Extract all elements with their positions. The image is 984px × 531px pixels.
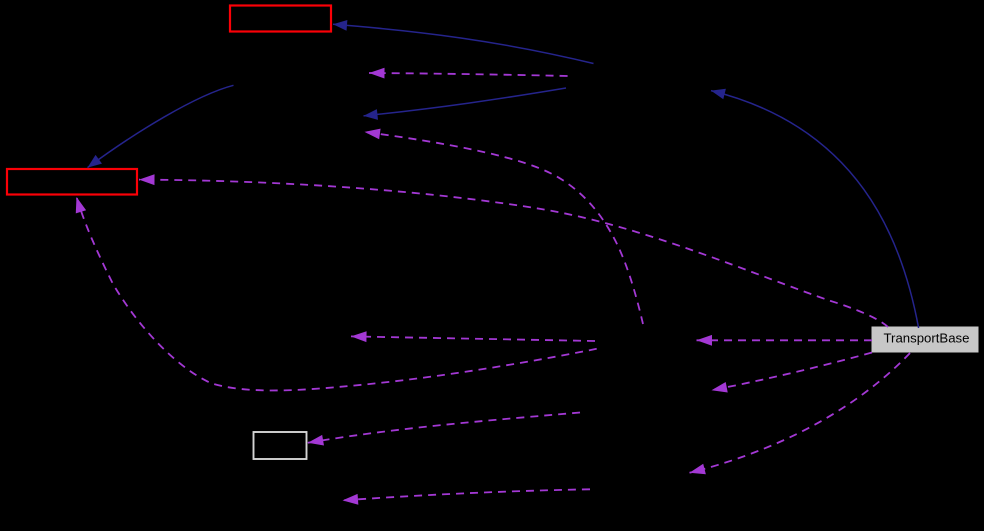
svg-text:TransportBase: TransportBase: [883, 331, 969, 346]
edge P6: dashed usage arrow, center node to top-left hidden node: [369, 73, 568, 76]
node: red class box (top, truncated label): [230, 6, 331, 32]
edge B4: solid inheritance arrow, TransportBase up to center node: [711, 91, 919, 328]
edge P9: dashed usage arrow, hidden node to white box: [308, 413, 580, 443]
edge P7: dashed usage arrow, mid node to left (horizontal): [351, 336, 595, 341]
edge P2: dashed usage arrow, TransportBase to mid hidden node (horizontal): [697, 339, 873, 341]
edge B1: solid inheritance arrow, center node to top red box: [333, 24, 594, 63]
edge P5: dashed usage arrow, S-curve from mid node up-left: [365, 132, 644, 324]
edge P11: dashed usage arrow, TransportBase to lower hidden node: [712, 353, 873, 391]
edge P1: dashed usage arrow, TransportBase to left red box: [139, 180, 888, 327]
node: TransportBase (grey filled): [872, 327, 978, 352]
edge P12: dashed usage arrow, TransportBase to bottom hidden node: [690, 353, 911, 473]
edge P8: dashed usage arrow, long U-curve from mid node to left red box bottom: [77, 197, 597, 390]
node: white/grey box (bottom middle): [254, 432, 307, 459]
edge B2: solid inheritance arrow, center node to mid-left hidden node: [364, 88, 567, 116]
edge B3: solid inheritance arrow, hidden node to left red box: [88, 85, 234, 167]
node: red class box (left, truncated label): [7, 169, 137, 195]
edge P10: dashed usage arrow, hidden node to bottom left: [343, 489, 591, 500]
